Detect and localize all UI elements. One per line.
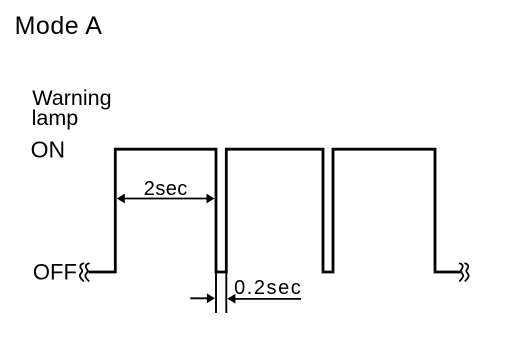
svg-text:Mode A: Mode A <box>15 12 103 40</box>
dimension 0.2sec left arrow <box>190 293 215 303</box>
dimension 2sec arrow <box>117 194 215 204</box>
waveform trace <box>89 149 462 272</box>
svg-text:Warninglamp: Warninglamp <box>32 86 112 130</box>
dimension 0.2sec right arrow <box>227 294 301 304</box>
break symbol right <box>460 263 469 281</box>
svg-text:ON: ON <box>31 137 66 163</box>
extension line right <box>225 273 227 313</box>
break symbol left <box>80 263 89 281</box>
svg-text:0.2sec: 0.2sec <box>234 277 302 299</box>
svg-text:OFF: OFF <box>33 259 77 284</box>
extension line left <box>215 273 217 313</box>
svg-text:2sec: 2sec <box>144 178 188 200</box>
